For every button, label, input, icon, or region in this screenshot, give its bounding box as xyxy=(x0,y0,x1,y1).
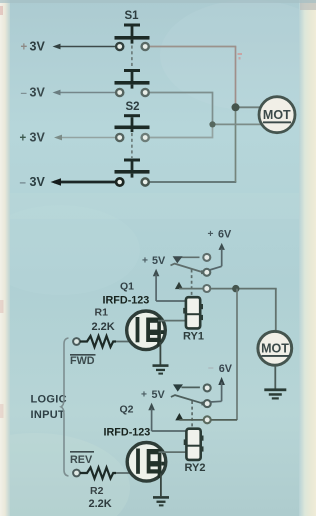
svg-text:+: + xyxy=(21,42,28,54)
svg-text:Q1: Q1 xyxy=(120,281,134,293)
svg-text:+: + xyxy=(142,256,148,267)
svg-text:S2: S2 xyxy=(126,101,140,113)
svg-text:–: – xyxy=(20,177,27,189)
svg-text:–: – xyxy=(21,88,28,100)
svg-text:MOT: MOT xyxy=(263,108,291,122)
svg-text:6V: 6V xyxy=(218,229,232,241)
svg-text:+: + xyxy=(141,390,147,401)
svg-text:R1: R1 xyxy=(95,307,109,319)
svg-text:S1: S1 xyxy=(125,10,140,22)
svg-text:3V: 3V xyxy=(30,175,46,189)
svg-text:5V: 5V xyxy=(152,389,166,401)
svg-text:2.2K: 2.2K xyxy=(89,498,112,510)
svg-text:3V: 3V xyxy=(30,131,46,145)
svg-text:REV: REV xyxy=(70,454,93,466)
svg-text:3V: 3V xyxy=(30,40,46,54)
svg-text:R2: R2 xyxy=(90,485,104,497)
svg-text:RY2: RY2 xyxy=(185,462,206,474)
svg-text:RY1: RY1 xyxy=(183,330,204,342)
svg-text:–: – xyxy=(208,363,214,374)
svg-text:IRFD-123: IRFD-123 xyxy=(103,295,150,307)
svg-text:3V: 3V xyxy=(30,86,46,100)
svg-text:INPUT: INPUT xyxy=(31,409,66,421)
svg-text:6V: 6V xyxy=(219,363,233,375)
svg-text:LOGIC: LOGIC xyxy=(31,394,67,406)
svg-text:+: + xyxy=(208,229,214,240)
svg-text:2.2K: 2.2K xyxy=(92,321,115,333)
svg-text:FWD: FWD xyxy=(70,355,95,367)
svg-text:IRFD-123: IRFD-123 xyxy=(104,427,151,439)
svg-text:5V: 5V xyxy=(152,255,166,267)
svg-text:+: + xyxy=(20,133,27,145)
svg-text:MOT: MOT xyxy=(261,342,289,356)
svg-text:Q2: Q2 xyxy=(120,404,134,416)
